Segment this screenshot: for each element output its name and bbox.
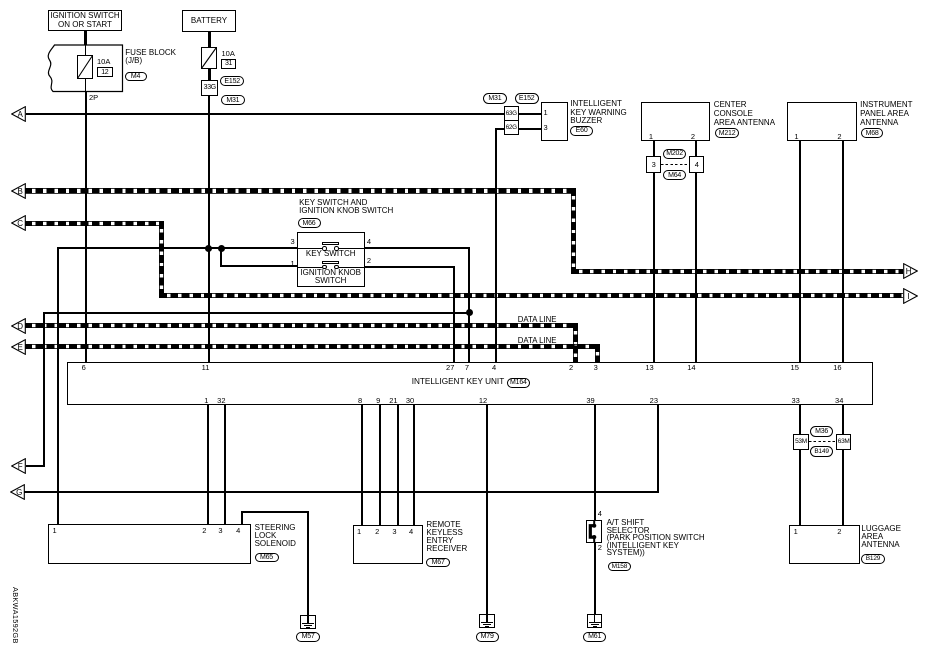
wire pin 27 riser [453,266,455,362]
A/T shift selector park position switch box [586,520,602,543]
pin 1 bottom [194,397,208,405]
label DATA LINE lower [518,337,557,345]
corner fill H [571,269,576,274]
connector box 63G [504,106,519,121]
intelligent key unit box M164 [67,362,873,405]
wire instrument antenna pin 1 to pin 15 [799,141,801,362]
connector oval M66 [298,218,321,228]
ignition switch box [48,10,123,31]
connector oval M36 [810,426,834,437]
pin 4 solenoid [226,527,240,535]
remote keyless entry receiver box M67 [353,525,424,564]
pin 2 solenoid [192,527,206,535]
connector box 31 [221,59,237,69]
pin 1 key switch [281,260,295,268]
node A arrow [11,106,26,122]
connector box 4 console [689,156,705,173]
wire instrument antenna pin 2 to pin 16 [842,141,844,362]
wire key switch pin 4 horizontal [365,247,470,249]
ground symbol M79 [479,614,495,628]
corner fill I [159,293,164,298]
node G arrow [10,484,25,500]
connector box 62G [504,120,519,135]
pin 2 luggage antenna [827,528,841,536]
wire data line E dashed horizontal [24,344,600,349]
pin 3 solenoid [209,527,223,535]
wire F horizontal to pin 7 junction [44,312,470,314]
svg-text:D: D [17,322,23,331]
pin 4 A/T selector [598,510,602,518]
pin 23 bottom [644,397,658,405]
label remote keyless entry receiver [426,521,467,553]
wire data line D dashed horizontal [24,323,578,328]
pin 30 bottom [400,397,414,405]
wire pin 39 riser to A/T shift selector [594,405,596,521]
pin 3 [584,364,598,372]
wire line H dashed horizontal [571,269,903,274]
wire pin 1 riser to solenoid pin 2 [207,405,209,524]
wire pin 33 riser upper [799,405,801,434]
node C arrow [11,215,26,231]
wire solenoid pin 4 horizontal [241,511,309,513]
wire data line E dashed riser to pin 3 [595,344,600,362]
wire solenoid pin 4 riser [241,511,243,524]
key switch contact line left [297,248,323,249]
node E arrow [11,339,26,355]
ignition knob contact line right [339,267,365,268]
pin 21 bottom [384,397,398,405]
connector oval M158 [608,562,631,571]
label luggage area antenna [861,525,901,550]
wire 62G riser down to pin 4 [495,128,497,363]
wire line G horizontal [24,491,659,493]
pin 1 instrument antenna [785,133,799,141]
pin 9 bottom [366,397,380,405]
wire battery feed stub to fuse [208,32,211,48]
pin 2 A/T selector [598,544,602,552]
dashed link 3-4 connectors [661,164,689,165]
instrument panel area antenna box [787,102,857,142]
connector oval M164 [507,378,531,388]
pin 1 solenoid [53,527,57,535]
label intelligent key warning buzzer [570,100,626,125]
pin 4 key switch [367,238,371,246]
wire line B dashed riser [571,188,576,273]
wire console antenna pin 1 lower to pin 13 [653,173,655,362]
pin 2 key switch [367,257,371,265]
pin 32 bottom [212,397,226,405]
svg-text:A: A [18,110,24,119]
wire 63G to buzzer pin 1 [519,113,541,115]
pin 3 key switch [281,238,295,246]
wire pin 12 riser to ground M79 [486,405,488,615]
wire key switch pin 1 branch riser [220,248,222,266]
label 10A fuse 31 [222,50,235,58]
center console area antenna box [641,102,711,142]
pin 34 bottom [829,397,843,405]
corner fill B [571,188,576,193]
intelligent key warning buzzer box E60 [541,102,568,141]
wire data line D dashed riser to pin 2 [573,323,578,362]
wire through fuse 12 upper [85,44,86,55]
connector oval M67 [426,558,450,568]
svg-text:C: C [17,219,23,228]
label center console area antenna [714,100,775,127]
corner fill E [595,344,600,349]
wire down to ground M57 [307,511,309,616]
pin 2 console antenna [681,133,695,141]
wire line I dashed horizontal [159,293,903,298]
wire buzzer pin 3 left of 62G [495,128,504,130]
pin 15 [785,364,799,372]
connector oval E60 [570,126,593,136]
connector box 3 console [646,156,662,173]
wire 62G to buzzer pin 3 [519,128,541,130]
junction dot F line / pin 7 riser [466,309,473,316]
connector oval M79 [476,632,499,643]
fuse block M4 outline [42,43,126,95]
connector oval M4 [125,72,147,82]
label DATA LINE upper [518,316,557,324]
ignition knob contact line left [297,267,323,268]
pin 16 [828,364,842,372]
svg-text:H: H [906,267,912,276]
node F arrow [11,458,26,474]
label steering lock solenoid [255,524,296,548]
label instrument panel area antenna [860,100,912,127]
junction dot key switch pin 1 branch [218,245,225,252]
connector oval B149 [810,446,834,457]
pin 33 bottom [786,397,800,405]
pin 1 console antenna [639,133,653,141]
connector oval M212 [715,128,739,138]
label 2P [89,94,98,102]
connector oval E152 battery [220,76,244,86]
pin 39 bottom [581,397,595,405]
wire battery fuse to 33G [208,69,211,81]
pin 14 [682,364,696,372]
pin 8 bottom [348,397,362,405]
wire key switch pin 3 horizontal [57,247,297,249]
pin 11 [195,364,209,372]
connector oval M68 [861,128,883,138]
ground symbol M61 [587,614,603,628]
wire battery riser 33G to pin 11 [208,96,210,362]
pin 2 [559,364,573,372]
connector oval E152 buzzer [515,93,539,103]
node B arrow [11,183,26,199]
key switch contact circle right [334,246,339,251]
label 10A fuse 12 [97,58,110,66]
pin 27 [440,364,454,372]
connector oval M31 buzzer [483,93,507,103]
wire F stub [26,465,44,467]
connector box 53M [793,434,809,450]
battery box [182,10,237,32]
pin 1 receiver [347,528,361,536]
wire console antenna pin 1 upper [653,141,655,156]
wire ignition feed stub [84,31,87,46]
connector oval B129 [861,554,884,564]
pin 12 bottom [473,397,487,405]
label FUSE BLOCK (J/B) [125,49,176,65]
fuse symbol 10A 12 [77,55,93,79]
wire A/T selector pin 2 to ground M61 [594,543,596,615]
connector oval M61 [583,632,606,643]
fuse symbol 10A 31 [201,47,217,69]
wire through fuse 12 lower [85,79,86,92]
pin 13 [640,364,654,372]
label INTELLIGENT KEY UNIT [412,378,505,386]
label IGNITION KNOB SWITCH [297,269,365,285]
footer code ABKWA1592GB [11,587,20,644]
key switch contact line right [339,248,365,249]
connector box 63M [836,434,852,450]
svg-text:I: I [907,292,909,301]
wire key switch pin 1 horizontal [220,265,296,267]
wire pin 21 riser to receiver pin 3 [397,405,399,525]
wire pin 30 riser to receiver pin 4 [413,405,415,525]
wire pin 9 riser to receiver pin 2 [379,405,381,525]
svg-text:F: F [18,462,23,471]
pin 3 receiver [383,528,397,536]
wire key switch pin 2 horizontal [365,266,456,268]
node H arrow [903,263,918,279]
pin 6 [72,364,86,372]
wire pin 23 riser [657,405,659,493]
wire pin 34 riser lower to luggage pin 2 [842,450,844,525]
wire pin 8 riser to receiver pin 1 [361,405,363,525]
steering lock solenoid box M65 [48,524,251,564]
key switch contact circle left [322,246,327,251]
wire pin 32 riser to solenoid pin 3 [224,405,226,524]
wire solenoid riser to pin 1 of M65 [57,247,59,524]
connector oval M65 [255,553,279,563]
pin 3 buzzer [544,124,548,132]
pin 1 luggage antenna [784,528,798,536]
connector oval M31 battery [221,95,245,105]
wire line B dashed horizontal [24,188,576,193]
wire pin 33 riser lower to luggage pin 1 [799,450,801,525]
connector box 33G [201,80,218,96]
pin 7 [455,364,469,372]
node D arrow [11,318,26,334]
ignition knob moving bar [322,261,339,264]
connector oval M202 [663,149,686,159]
svg-text:B: B [18,187,23,196]
wire pin 7 riser [468,247,470,362]
connector oval M57 [296,632,320,643]
label key switch and ignition knob switch [299,199,393,215]
wire line C dashed horizontal [24,221,164,226]
connector oval M64 [663,170,686,180]
corner fill D [573,323,578,328]
wire line A horizontal to 63G [26,113,504,115]
park position switch symbol [586,520,602,543]
wire line C dashed riser [159,221,164,299]
wire F riser [43,312,45,468]
node I arrow [903,288,918,304]
wire console antenna pin 2 lower to pin 14 [695,173,697,362]
junction dot battery / key switch line [205,245,212,252]
label KEY SWITCH [297,250,365,258]
pin 2 instrument antenna [828,133,842,141]
wire console antenna pin 2 upper [695,141,697,156]
pin 1 buzzer [544,109,548,117]
pin 2 receiver [365,528,379,536]
key switch moving bar [322,242,339,245]
label A/T shift selector [607,519,705,557]
svg-text:E: E [18,343,23,352]
pin 4 receiver [399,528,413,536]
key switch and ignition knob switch box M66 [297,232,365,287]
luggage area antenna box B129 [789,525,860,565]
corner fill C [159,221,164,226]
wire pin 34 riser upper [842,405,844,434]
dashed link 53M-63M [809,441,836,442]
ignition knob contact circle right [334,265,339,270]
pin 4 [482,364,496,372]
ignition knob contact circle left [322,265,327,270]
connector box 12 [97,67,113,77]
svg-text:G: G [16,488,22,497]
wire ignition riser 2P to pin 6 [85,92,87,363]
ground symbol M57 [300,615,316,629]
